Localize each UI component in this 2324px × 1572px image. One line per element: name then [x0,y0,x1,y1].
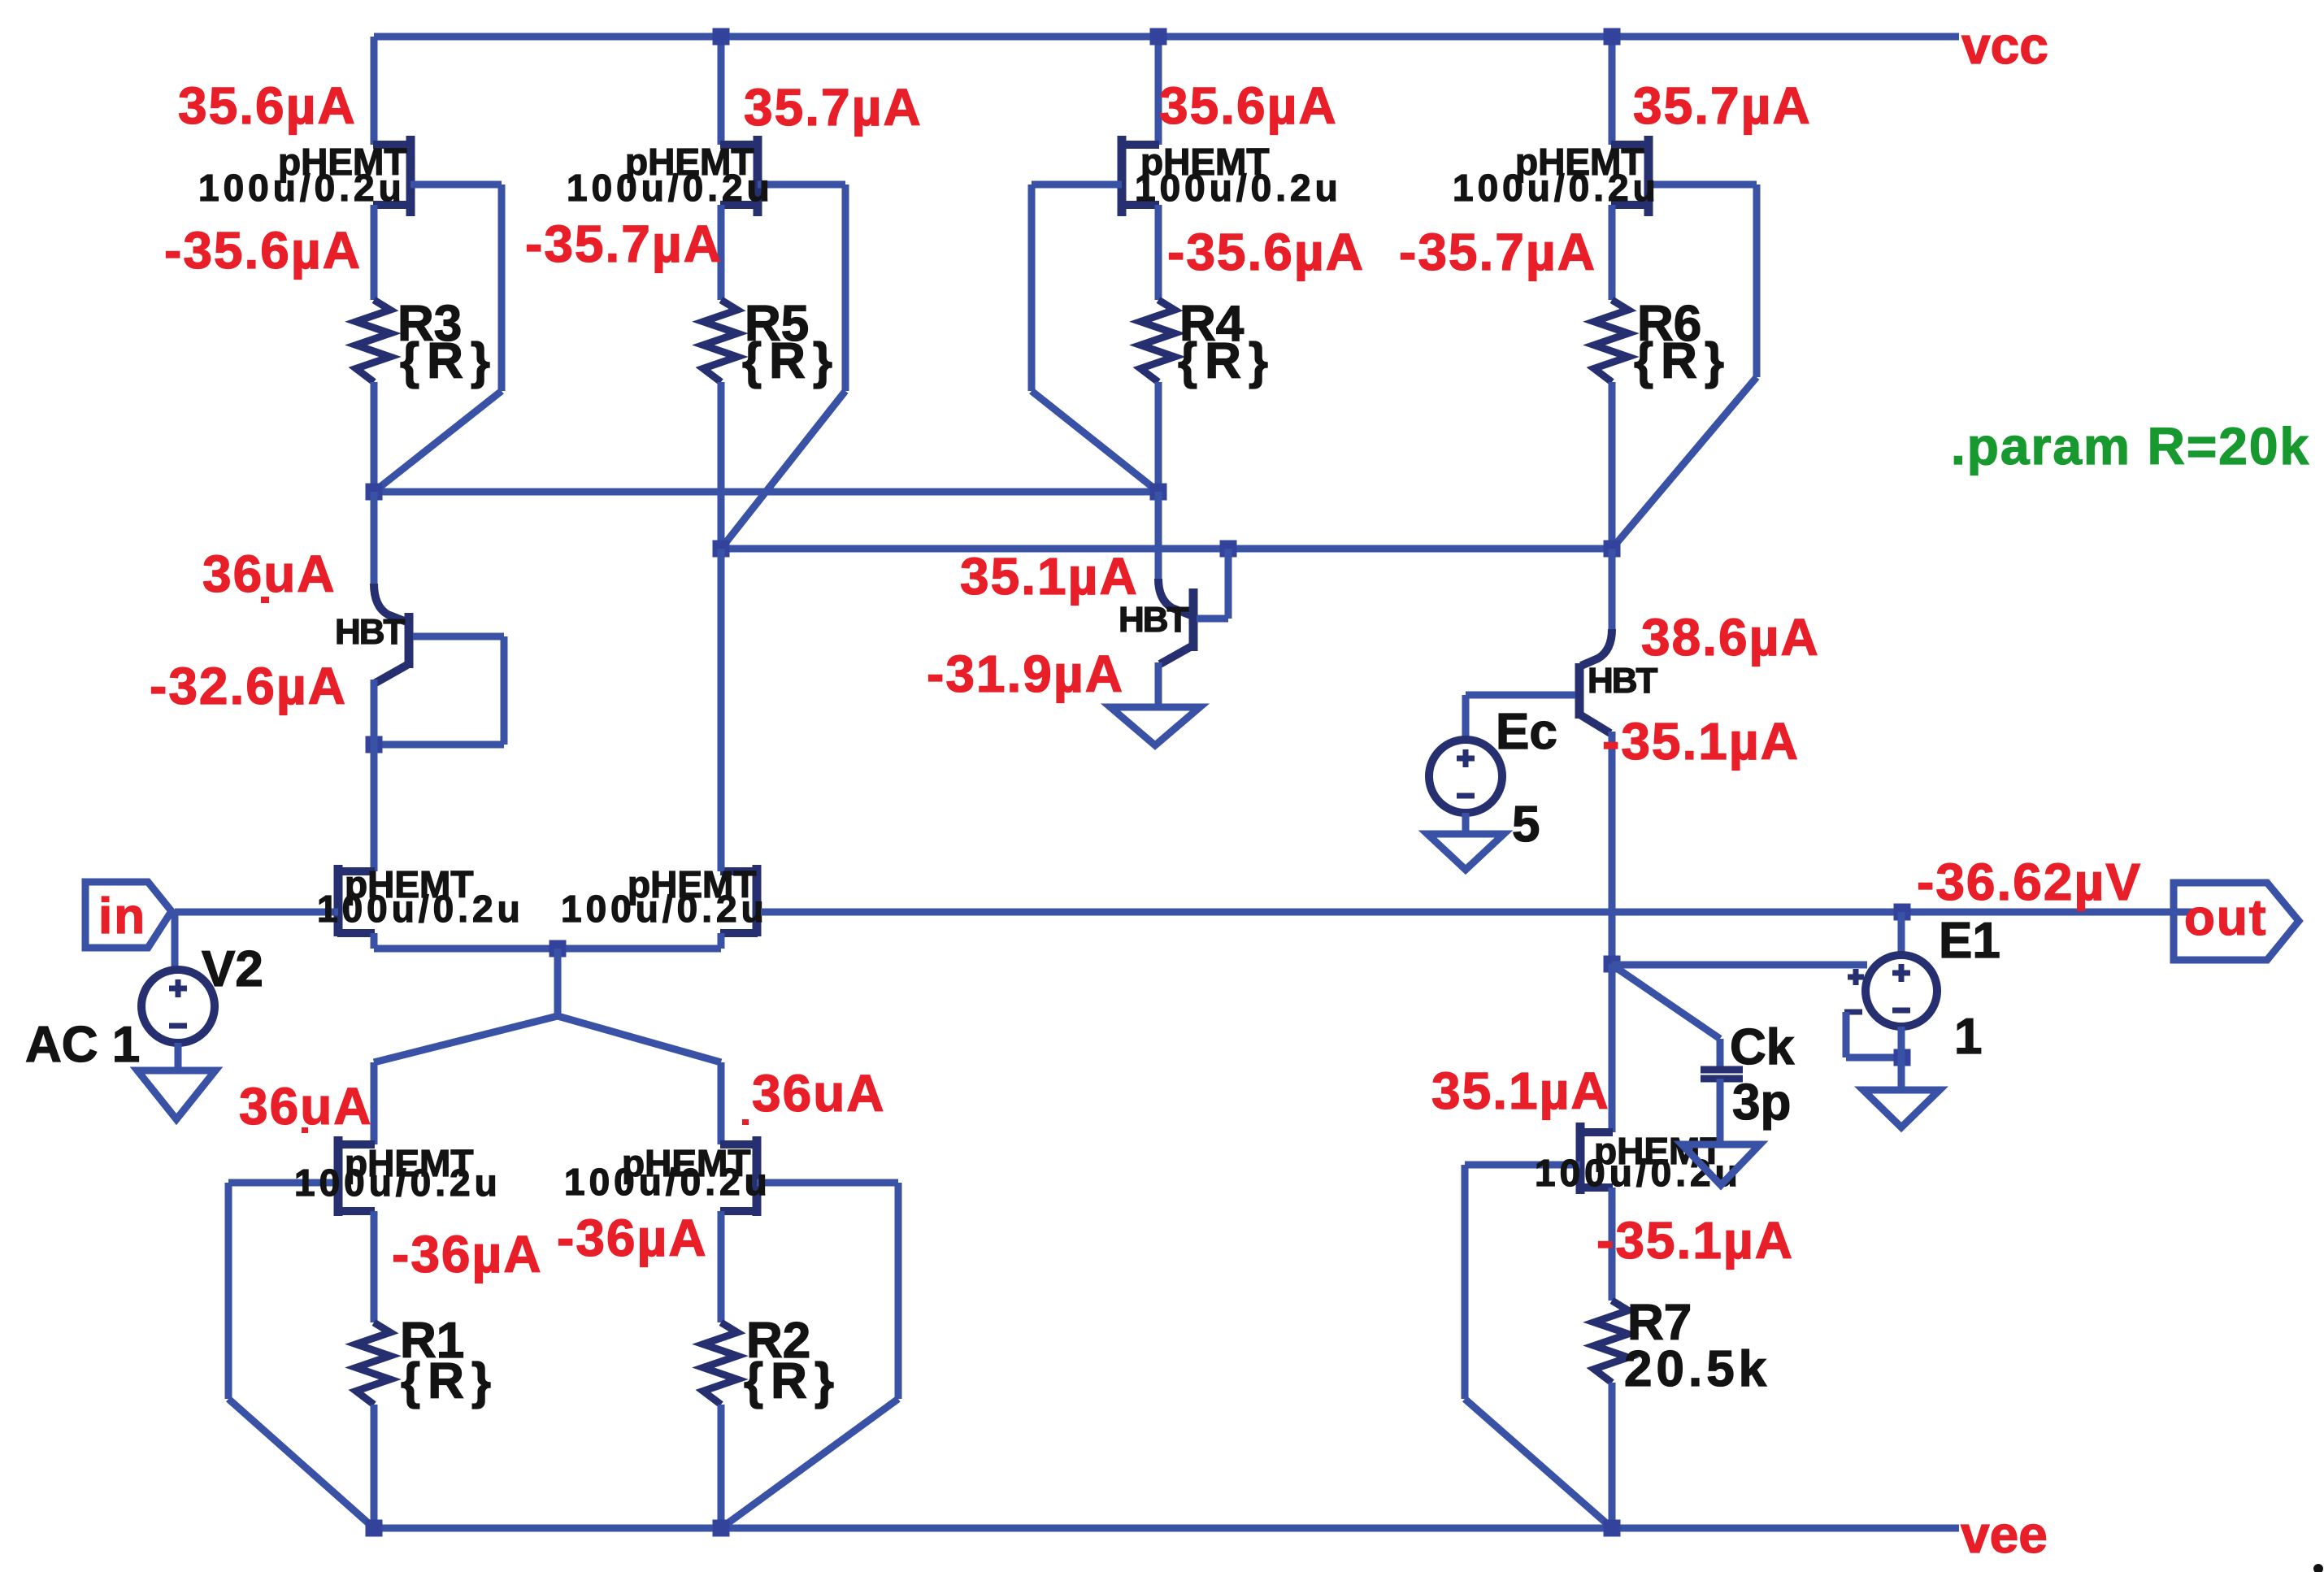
junction tail [550,940,567,958]
port out outline [2174,883,2299,960]
voltage source V2 plus mark [169,986,187,992]
svg-text:.param R=20k: .param R=20k [1951,417,2310,476]
pHEMT Q1 source lead [373,201,411,209]
wire HBT1 emitter down to M1 drain [371,680,378,871]
svg-text:HBT: HBT [335,612,406,652]
transistor HBT2 collector curve [1158,579,1191,615]
node railB wire [721,545,1612,553]
wire colB railB to M2 drain [718,549,725,871]
pHEMT M1 drain lead [337,867,375,875]
resistor R4 body [1140,300,1175,382]
wire Q3 source to R4 [1155,205,1162,300]
pHEMT M4 channel bar [753,1136,762,1216]
resistor R7 body [1594,1301,1628,1383]
svg-text:vee: vee [1961,1505,2048,1564]
E1 control minus mark [1844,1010,1862,1015]
wire E1 top stub [1898,912,1905,956]
junction HBT1 base-emitter [366,736,383,753]
wire Mk gate diagonal [1465,1399,1612,1528]
wire R5 to railB [718,382,725,549]
pHEMT M3 channel bar [334,1136,343,1216]
vee rail wire [374,1525,1959,1532]
wire HBT1 base loop down [501,636,508,745]
wire M4 gate diagonal [721,1399,898,1528]
svg-text:-35.1µA: -35.1µA [1596,1211,1794,1270]
wire M3 source to R1 [371,1211,378,1322]
wire Ec to ground [1462,813,1470,834]
wire E1 bottom [1898,1027,1905,1090]
wire E1 control minus loop bottom [1846,1054,1901,1062]
svg-text:out: out [2184,890,2267,946]
transistor HBT3 base bar [1575,663,1584,719]
pHEMT M3 drain lead [337,1140,375,1149]
voltage source Ec plus mark [1457,756,1475,762]
wire node K to E1 control [1612,962,1867,969]
wire M2 gate to out port [761,909,2175,916]
voltage source E1 minus mark [1892,1008,1910,1014]
pHEMT Q2 source lead [720,201,758,209]
wire Q3 gate down [1028,185,1036,391]
pHEMT Q1 channel bar [406,136,415,216]
wire Q1 source to R3 [371,205,378,300]
ground Ck [1682,1144,1760,1185]
wire HBT1 base loop bottom [374,741,504,749]
svg-text:100u/0.2u: 100u/0.2u [561,888,768,930]
svg-text:36uA: 36uA [239,1077,373,1136]
pHEMT M1 source lead [337,929,375,937]
junction railA left [366,484,383,501]
resistor R5 body [703,300,737,382]
ground E1 [1863,1090,1940,1127]
svg-text:100u/0.2u: 100u/0.2u [294,1162,502,1204]
svg-text:5: 5 [1512,797,1540,853]
wire V2 stub [172,912,179,970]
ground V2 [137,1070,215,1119]
voltage source E1 circle [1866,955,1937,1027]
pHEMT Mk channel bar [1576,1123,1585,1194]
svg-text:38.6µA: 38.6µA [1641,608,1820,667]
junction vee colB [713,1520,730,1537]
resistor R2 body [703,1322,737,1405]
wire HBT3 emitter down to node K [1609,732,1616,964]
transistor HBT1 base bar [405,613,414,668]
wire Ck diagonal [1612,965,1720,1039]
wire Q4 gate diagonal [1612,377,1757,549]
svg-text:100u/0.2u: 100u/0.2u [198,167,406,209]
junction vee colA [366,1520,383,1537]
svg-text:{R}: {R} [1178,333,1275,389]
svg-text:-35.1µA: -35.1µA [1602,712,1800,771]
pHEMT Mk drain lead [1579,1128,1613,1136]
wire Mk gate down [1462,1165,1469,1399]
pHEMT M3 source lead [337,1207,375,1215]
wire M4 source to R2 [718,1211,725,1322]
svg-text:AC 1: AC 1 [25,1017,140,1073]
svg-text:{R}: {R} [1634,333,1731,389]
svg-text:35.1µA: 35.1µA [960,547,1139,606]
svg-text:3p: 3p [1732,1075,1791,1131]
wire R6 to railB [1609,382,1616,549]
svg-text:36uA: 36uA [752,1064,886,1123]
wire M3 gate down [225,1183,232,1399]
svg-text:100u/0.2u: 100u/0.2u [567,167,774,209]
resistor R6 body [1594,300,1628,382]
voltage source V2 circle [141,970,215,1043]
pHEMT Q2 channel bar [754,136,762,216]
svg-text:-31.9µA: -31.9µA [927,645,1124,703]
junction out-E1 [1894,904,1911,921]
wire M1 source down [371,933,378,949]
wire colA vcc to Q1 drain [371,37,378,145]
svg-text:E1: E1 [1939,913,2000,969]
voltage source Ec minus mark [1457,793,1475,799]
voltage source V2 minus mark [169,1023,187,1029]
wire R1 to vee [371,1405,378,1528]
wire Q3 gate diagonal [1032,391,1158,492]
pHEMT M1 gate lead wire [334,909,338,916]
wire Ec top [1462,695,1470,740]
svg-text:-36.62µV: -36.62µV [1917,853,2142,911]
pHEMT Q3 gate lead wire [1032,181,1122,189]
pHEMT Q4 gate lead wire [1649,181,1757,189]
svg-text:{R}: {R} [744,1353,841,1409]
ground HBT2 emitter [1110,707,1200,745]
pHEMT Q1 drain lead [373,141,411,149]
capacitor Ck bottom plate [1701,1075,1743,1083]
E1 control plus mark [1848,975,1864,980]
transistor HBT1 emitter [376,665,407,683]
wire in port to M1 gate [175,909,334,916]
pHEMT Q1 gate lead wire [411,181,502,189]
transistor HBT3 collector curve [1581,629,1612,666]
red dot under 36uA M1 [302,1127,308,1133]
junction railB left [713,541,730,558]
pHEMT M1 channel bar [334,865,343,936]
resistor R3 body [356,300,390,382]
svg-text:{R}: {R} [400,333,497,389]
junction vcc-colB [713,28,730,46]
resistor R1 body [356,1322,390,1405]
capacitor Ck top plate [1701,1066,1743,1074]
wire R4 to railA [1155,382,1162,492]
wire Q2 gate diagonal [721,391,845,549]
pHEMT M4 source lead [720,1207,758,1215]
pHEMT Q2 gate lead wire [758,181,845,189]
svg-text:100u/0.2u: 100u/0.2u [317,888,524,930]
wire colC vcc to Q3 drain [1155,37,1162,145]
svg-text:HBT: HBT [1119,600,1189,640]
svg-text:-35.6µA: -35.6µA [164,221,362,280]
wire E1 control minus loop down [1843,1012,1850,1057]
pHEMT M2 drain lead [720,867,758,875]
wire Q1 gate down [498,185,506,391]
svg-text:1: 1 [1954,1009,1982,1065]
svg-text:{R}: {R} [401,1353,498,1409]
red dot under 36uA M2 [742,1119,749,1125]
pHEMT Q3 drain lead [1121,141,1159,149]
red dot under 36uA [261,597,269,603]
pHEMT Mk gate lead wire [1465,1162,1580,1169]
pHEMT Mk source lead [1579,1183,1613,1192]
wire railA to HBT1 collector [371,492,378,587]
wire Q2 gate down [842,185,849,391]
junction railA right [1150,484,1167,501]
pHEMT M2 gate lead wire [757,909,2196,916]
wire tail diagonal left [374,1016,558,1062]
wire R2 to vee [718,1405,725,1528]
pHEMT M4 gate lead wire [757,1179,898,1187]
transistor HBT2 base lead [1197,615,1228,623]
node railA wire [374,489,1158,496]
wire Ck bottom lead [1717,1079,1724,1144]
wire HBT2 base stub to railB [1225,549,1232,619]
wire V2 to ground [175,1043,182,1070]
wire R7 to vee [1609,1383,1616,1528]
svg-text:35.6µA: 35.6µA [178,76,357,135]
svg-text:-36µA: -36µA [557,1209,708,1267]
wire Ck top lead [1717,1039,1724,1068]
port in outline [85,882,172,948]
wire node K to Mk drain [1609,964,1616,1132]
wire Mk source to R7 [1609,1188,1616,1301]
vcc rail wire [374,33,1959,41]
svg-text:in: in [98,888,146,945]
transistor HBT3 base lead wire [1466,692,1575,699]
pHEMT M3 gate lead wire [228,1179,338,1187]
pHEMT Q4 channel bar [1644,136,1653,216]
svg-text:vcc: vcc [1961,16,2048,75]
wire M2 source down [718,933,725,949]
svg-text:-32.6µA: -32.6µA [150,657,347,715]
transistor HBT2 emitter [1160,646,1192,664]
svg-text:100u/0.2u: 100u/0.2u [1453,167,1660,209]
svg-text:20.5k: 20.5k [1624,1341,1770,1397]
transistor HBT2 base bar [1189,588,1198,651]
wire HBT2 emitter down [1155,662,1162,707]
wire railB to HBT3 collector [1609,549,1616,632]
pHEMT M2 source lead [720,929,758,937]
wire M4 gate down [895,1183,902,1399]
svg-text:V2: V2 [202,941,263,997]
transistor HBT3 emitter [1581,715,1610,733]
ground Ec [1427,834,1504,870]
wire source bus [374,945,721,953]
wire Q4 source to R6 [1609,205,1616,300]
junction railB right [1604,541,1621,558]
wire R3 to railA [371,382,378,492]
svg-text:{R}: {R} [742,333,840,389]
black dot bottom right [2313,1564,2323,1572]
pHEMT M2 channel bar [753,865,762,936]
wire M3 gate diagonal [228,1399,374,1528]
junction vee colD [1604,1520,1621,1537]
junction vcc-colC [1150,28,1167,46]
voltage source Ec circle [1429,740,1502,813]
junction vcc-colD [1604,28,1621,46]
pHEMT Q2 drain lead [720,141,758,149]
wire colB vcc to Q2 drain [718,37,725,145]
svg-text:36uA: 36uA [202,545,337,603]
wire Q2 source to R5 [718,205,725,300]
wire colD vcc to Q4 drain [1609,37,1616,145]
svg-text:HBT: HBT [1588,661,1658,701]
svg-text:-35.7µA: -35.7µA [1399,223,1596,281]
voltage source E1 plus mark [1892,971,1910,976]
svg-text:Ck: Ck [1730,1019,1795,1075]
svg-text:35.7µA: 35.7µA [744,78,923,137]
svg-text:-36µA: -36µA [392,1225,543,1283]
junction railB HBT2 base [1220,541,1237,558]
node K junction [1604,956,1621,973]
wire HBT1 base lead [413,633,504,641]
svg-text:100u/0.2u: 100u/0.2u [1135,167,1342,209]
pHEMT Q3 channel bar [1118,136,1127,216]
svg-text:-35.7µA: -35.7µA [525,215,723,273]
wire railA to HBT2 collector [1155,492,1162,582]
junction E1 minus [1894,1049,1911,1066]
pHEMT Q4 drain lead [1611,141,1649,149]
wire tail right down [718,1062,725,1144]
svg-text:-35.6µA: -35.6µA [1167,223,1365,281]
wire Q4 gate down [1753,185,1761,377]
wire Q1 gate diagonal [374,391,502,492]
svg-text:100u/0.2u: 100u/0.2u [564,1161,771,1203]
wire tail stub [554,949,562,1016]
pHEMT Q4 source lead [1611,201,1649,209]
svg-text:35.7µA: 35.7µA [1633,76,1812,135]
wire tail diagonal right [558,1016,721,1062]
svg-text:Ec: Ec [1496,704,1557,760]
pHEMT M4 drain lead [720,1140,758,1149]
wire tail left down [371,1062,378,1144]
svg-text:35.1µA: 35.1µA [1431,1062,1610,1120]
transistor HBT1 collector curve [374,584,406,622]
pHEMT Q3 source lead [1121,201,1159,209]
svg-text:35.6µA: 35.6µA [1159,76,1338,135]
